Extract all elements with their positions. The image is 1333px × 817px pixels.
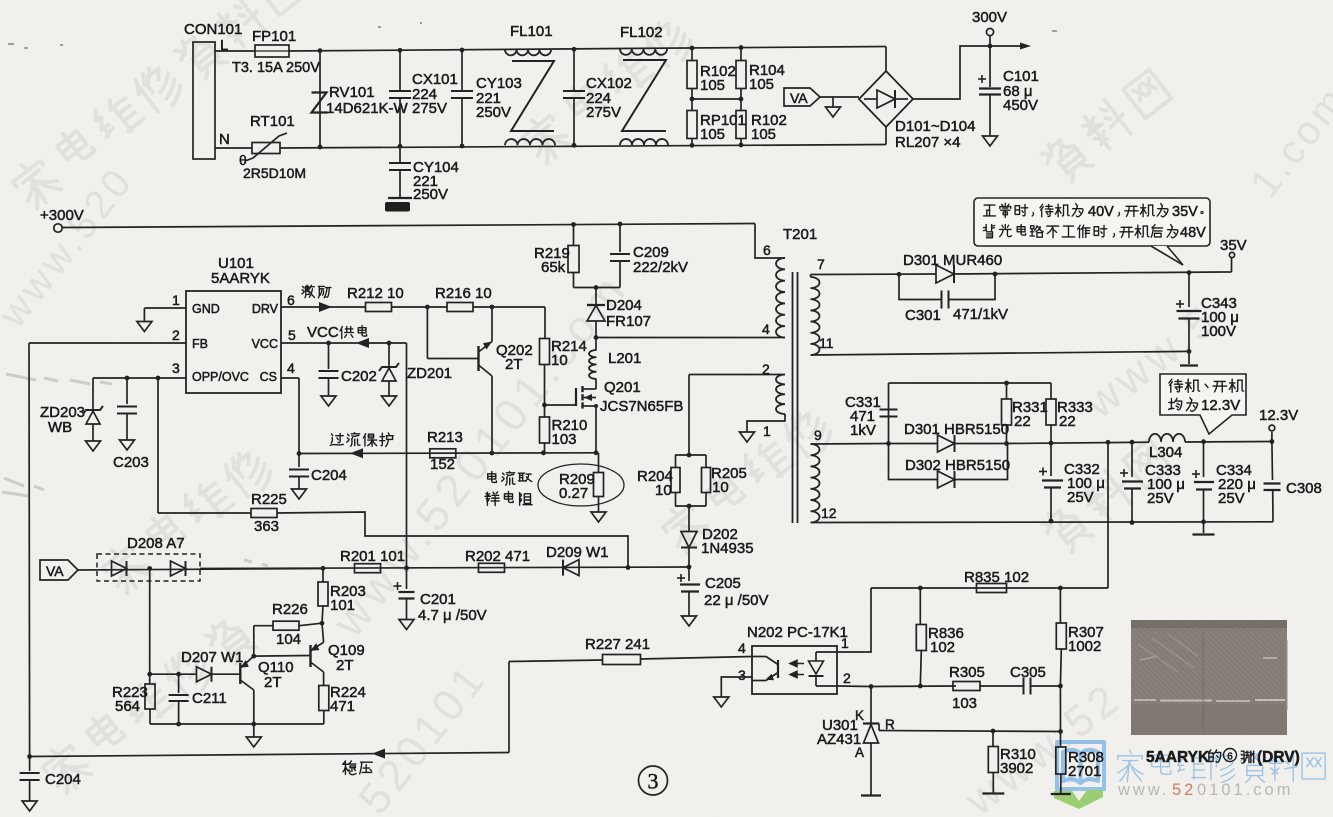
zener ZD201	[388, 343, 390, 366]
ground R308	[1051, 793, 1071, 795]
callout standby 12.3V	[1160, 374, 1246, 434]
resistor R331	[1002, 399, 1012, 425]
svg-text:564: 564	[115, 698, 140, 715]
svg-text:DRV: DRV	[252, 302, 279, 316]
svg-text:250V: 250V	[413, 186, 448, 203]
callout normal standby 40V	[974, 198, 1210, 246]
resistor R102 lower	[736, 111, 746, 139]
capacitor C203	[126, 378, 128, 404]
label jili drive	[302, 285, 315, 298]
svg-text:6: 6	[763, 242, 771, 258]
resistor R224	[319, 686, 329, 711]
svg-text:2T: 2T	[264, 674, 282, 691]
resistor R209 current sense	[538, 464, 624, 506]
svg-text:12: 12	[821, 505, 837, 521]
svg-text:105: 105	[751, 126, 776, 143]
svg-text:www.: www.	[1117, 781, 1169, 799]
ground C343 return	[1188, 351, 1190, 364]
resistor R203	[322, 568, 324, 582]
resistors R204 R205 parallel	[688, 375, 690, 456]
svg-text:9: 9	[814, 427, 822, 443]
svg-text:4: 4	[287, 360, 295, 376]
ground ZD201	[382, 396, 397, 406]
transistor Q109	[309, 645, 311, 667]
svg-text:1: 1	[172, 292, 180, 308]
resistor R213	[430, 449, 456, 458]
scan speckles	[8, 23, 1057, 48]
svg-text:3902: 3902	[1000, 760, 1033, 777]
svg-text:FB: FB	[192, 337, 208, 351]
svg-text:2T: 2T	[505, 356, 523, 373]
svg-text:40V: 40V	[1088, 204, 1114, 220]
svg-text:FR107: FR107	[606, 313, 651, 330]
IC U101 5AARYK	[186, 291, 281, 393]
inductor L304	[1149, 434, 1185, 442]
svg-text:Q201: Q201	[604, 379, 641, 396]
svg-text:0101.com: 0101.com	[1197, 781, 1293, 799]
wire VA row	[78, 569, 323, 571]
label current sampling resistor	[488, 472, 497, 483]
svg-text:C203: C203	[113, 454, 149, 471]
capacitor CY103	[461, 50, 463, 91]
resistor R219	[568, 246, 579, 273]
svg-text:R225: R225	[251, 491, 287, 508]
ground R209	[591, 512, 606, 522]
ground CY104	[388, 197, 412, 199]
svg-text:35V: 35V	[1220, 237, 1247, 254]
svg-text:1kV: 1kV	[850, 422, 876, 439]
svg-text:105: 105	[700, 126, 725, 143]
T201 primary winding pin6 pin4	[755, 224, 785, 259]
resistor R225	[251, 509, 277, 518]
wire mid junction	[692, 98, 741, 100]
wire DRV corner to R214	[544, 307, 546, 339]
thermistor RT101	[252, 143, 280, 154]
wire VA to bridge	[820, 96, 859, 98]
resistor R212	[366, 303, 392, 312]
diode D301 HBR5150	[889, 443, 938, 445]
ground pin1	[143, 308, 145, 322]
svg-text:GND: GND	[192, 302, 220, 316]
svg-text:22 μ /50V: 22 μ /50V	[704, 592, 769, 609]
diode D301 MUR460	[936, 265, 954, 283]
svg-text:222/2kV: 222/2kV	[633, 259, 688, 276]
wire R216 out	[473, 306, 545, 308]
svg-text:ZD201: ZD201	[407, 365, 452, 382]
capacitor C332	[1050, 443, 1052, 476]
svg-text:103: 103	[552, 431, 577, 448]
svg-text:12.3V: 12.3V	[1259, 407, 1298, 424]
svg-text:VCC: VCC	[307, 324, 339, 341]
wire pin9 row	[811, 443, 889, 446]
svg-text:3: 3	[738, 667, 746, 683]
svg-text:275V: 275V	[412, 100, 447, 117]
logo blue site name	[1118, 750, 1143, 782]
label circled 3 page number	[639, 766, 668, 795]
svg-text:OPP/OVC: OPP/OVC	[192, 370, 249, 384]
resistor R310	[992, 731, 994, 747]
wire 12V row	[1007, 442, 1150, 443]
TL431 U301 AZ431	[870, 687, 872, 724]
svg-text:FL101: FL101	[510, 23, 553, 40]
common-mode choke FL102	[620, 49, 667, 55]
svg-text:1: 1	[841, 635, 849, 651]
svg-text:R835 102: R835 102	[964, 569, 1029, 586]
fuse FP101	[255, 45, 289, 57]
wire TL431 ref row	[878, 724, 880, 731]
resistor R305	[953, 682, 980, 691]
diode D202 1N4935	[688, 506, 690, 531]
wire C305 out	[1031, 685, 1061, 687]
wire regulation row	[30, 753, 509, 757]
node 35V terminal	[1222, 271, 1232, 273]
T201 secondary winding pin7 pin11	[811, 277, 820, 355]
T201 secondary winding pin9 pin12	[811, 444, 820, 523]
resistor R216	[447, 303, 473, 312]
capacitor CX101	[399, 50, 401, 91]
svg-text:5AARYK: 5AARYK	[1146, 749, 1210, 766]
wire bridge bottom to N rail	[885, 127, 887, 145]
zener ZD203	[92, 378, 94, 409]
svg-text:D208 A7: D208 A7	[127, 535, 185, 552]
svg-text:4: 4	[738, 640, 746, 656]
svg-text:C211: C211	[192, 690, 227, 707]
svg-text:WB: WB	[48, 419, 72, 436]
svg-text:N: N	[219, 131, 230, 148]
wire regulation to R227	[508, 662, 510, 753]
svg-text:6: 6	[1227, 752, 1233, 763]
resistor R308	[1060, 732, 1062, 747]
node +300V terminal	[54, 224, 62, 232]
svg-text:103: 103	[952, 695, 977, 712]
transformer T201 core	[792, 272, 794, 523]
svg-text:2701: 2701	[1068, 763, 1101, 780]
resistor R201	[355, 564, 381, 573]
node 12.3V terminal	[1271, 432, 1273, 442]
svg-text:22: 22	[1014, 413, 1031, 430]
svg-text:1002: 1002	[1068, 638, 1101, 655]
svg-text:25V: 25V	[1218, 490, 1245, 507]
ground C203	[120, 440, 135, 450]
wire opto pin2 row	[837, 685, 871, 688]
svg-text:101: 101	[330, 597, 355, 614]
svg-text:JCS7N65FB: JCS7N65FB	[600, 398, 683, 415]
svg-text:12.3V: 12.3V	[1201, 397, 1240, 414]
svg-text:11: 11	[819, 335, 834, 351]
svg-text:471/1kV: 471/1kV	[953, 306, 1008, 323]
svg-text:100V: 100V	[1201, 323, 1236, 340]
svg-text:7: 7	[817, 256, 825, 272]
svg-text:363: 363	[254, 518, 279, 535]
diode D209 W1	[563, 560, 579, 576]
transistor Q201 JCS7N65FB	[575, 388, 577, 406]
resistor RP101	[687, 111, 697, 139]
svg-text:FL102: FL102	[620, 24, 663, 41]
connector CON101	[193, 42, 215, 159]
svg-text:275V: 275V	[586, 104, 621, 121]
capacitor C343	[1188, 273, 1190, 307]
svg-text:L304: L304	[1149, 444, 1182, 461]
wire opto pin3 ground	[721, 677, 752, 697]
label overcurrent protection	[330, 434, 343, 446]
resistor R210	[540, 417, 550, 443]
svg-text:R212 10: R212 10	[347, 285, 404, 302]
svg-text:65k: 65k	[541, 259, 566, 276]
label VA input	[40, 560, 78, 580]
svg-text:R213: R213	[427, 429, 463, 446]
wire D208 junction drop	[149, 569, 151, 675]
svg-text:D204: D204	[606, 297, 642, 314]
resistor R307	[1059, 588, 1061, 623]
wire 12V bottom rail	[811, 521, 1274, 524]
ground at bridge input	[832, 97, 834, 107]
svg-text:RV101: RV101	[329, 84, 375, 101]
resistor R227	[603, 655, 641, 665]
svg-text:22: 22	[1059, 413, 1076, 430]
capacitor CX102	[573, 49, 575, 91]
capacitor C301 bypass	[899, 274, 941, 299]
wire gate	[545, 404, 577, 406]
wire N rail	[280, 145, 886, 149]
svg-text:2T: 2T	[336, 657, 354, 674]
resistor R202	[479, 563, 505, 572]
svg-text:471: 471	[330, 698, 355, 715]
svg-text:D101~D104: D101~D104	[895, 118, 975, 135]
wire snubber bottom	[574, 287, 621, 289]
svg-text:5: 5	[288, 327, 296, 343]
resistor R214	[540, 339, 550, 365]
ground C204	[292, 489, 307, 499]
ground C202	[321, 396, 336, 406]
transistor Q202	[426, 307, 428, 359]
svg-text:5AARYK: 5AARYK	[211, 270, 270, 287]
svg-text:105: 105	[700, 77, 725, 94]
capacitor C201	[406, 568, 408, 589]
node 300V terminal	[988, 44, 993, 49]
bridge rectifier D101-D104	[859, 71, 913, 127]
svg-text:25V: 25V	[1067, 489, 1094, 506]
wire bridge top	[885, 47, 887, 72]
wire D207 to Q110 base	[212, 673, 241, 675]
svg-text:L201: L201	[608, 350, 641, 367]
svg-text:R216 10: R216 10	[435, 285, 492, 302]
svg-text:C204: C204	[311, 467, 347, 484]
wire row A	[200, 567, 689, 569]
wire N line	[215, 147, 252, 149]
svg-text:D301 MUR460: D301 MUR460	[903, 252, 1002, 269]
svg-text:2R5D10M: 2R5D10M	[243, 165, 306, 181]
svg-text:N202 PC-17K1: N202 PC-17K1	[747, 624, 848, 641]
wire D301 out	[954, 272, 1222, 274]
wire FB vertical	[28, 343, 31, 757]
svg-text:R202 471: R202 471	[465, 548, 530, 565]
svg-text:D209 W1: D209 W1	[546, 544, 609, 561]
svg-text:152: 152	[430, 456, 455, 473]
logo book icon	[1057, 742, 1104, 789]
capacitor C331	[888, 383, 890, 444]
svg-text:R226: R226	[272, 601, 308, 618]
resistor R835	[977, 584, 1007, 593]
svg-text:250V: 250V	[476, 104, 511, 121]
svg-text:25V: 25V	[1147, 490, 1174, 507]
diode pair D208 A7	[97, 554, 200, 581]
common-mode choke FL101	[505, 50, 551, 56]
svg-text:14D621K-W: 14D621K-W	[326, 100, 409, 117]
wire pin11 row	[811, 351, 1190, 355]
capacitor CY104	[399, 146, 401, 163]
capacitor C211	[178, 674, 180, 693]
svg-text:C308: C308	[1286, 480, 1322, 497]
svg-text:1N4935: 1N4935	[701, 540, 754, 557]
resistor R226	[254, 625, 273, 627]
svg-text:VCC: VCC	[252, 337, 278, 351]
resistor R225 row	[157, 378, 159, 513]
svg-text:300V: 300V	[972, 9, 1007, 26]
svg-text:10: 10	[712, 479, 729, 496]
svg-text:AZ431: AZ431	[817, 731, 861, 748]
wire R305 to C305	[980, 685, 1024, 687]
optocoupler N202 PC-17K1	[752, 646, 837, 694]
resistor R223	[149, 674, 151, 684]
svg-text:D301 HBR5150: D301 HBR5150	[904, 421, 1009, 438]
wire L rail	[289, 47, 886, 52]
label regulation	[343, 761, 356, 775]
capacitor C334	[1203, 442, 1205, 477]
wire VCC feed vertical	[406, 343, 408, 568]
ground R310	[982, 792, 1004, 794]
ground ZD203	[86, 441, 101, 451]
capacitor C305	[1023, 678, 1025, 695]
inductor L201	[595, 338, 597, 351]
svg-text:(DRV): (DRV)	[1257, 749, 1300, 766]
svg-text:10: 10	[551, 352, 568, 369]
resistor R102 top-left	[687, 61, 697, 89]
svg-text:C201: C201	[420, 591, 456, 608]
wire +300V rail	[62, 224, 755, 228]
wire R225 to row A	[277, 512, 628, 568]
svg-text:VA: VA	[790, 90, 808, 106]
svg-text:R227 241: R227 241	[585, 636, 650, 653]
svg-text:3: 3	[172, 360, 180, 376]
ground 12V rail	[1203, 522, 1205, 533]
svg-text:C301: C301	[905, 307, 941, 324]
resistor R104	[736, 61, 746, 89]
svg-text:3: 3	[648, 769, 659, 794]
svg-text:2: 2	[172, 327, 180, 343]
wire R835 row	[871, 587, 1108, 589]
svg-text:RL207 ×4: RL207 ×4	[895, 134, 960, 151]
svg-text:VA: VA	[46, 563, 64, 579]
svg-text:52: 52	[1172, 781, 1196, 799]
svg-text:RT101: RT101	[250, 113, 295, 130]
ground C205	[682, 616, 697, 626]
diode D302 HBR5150	[889, 444, 938, 480]
svg-text:C205: C205	[705, 575, 741, 592]
transistor Q110	[150, 673, 196, 675]
ground bracket	[253, 724, 255, 737]
wire emitter ground bracket	[150, 723, 324, 725]
wire Q110 emitter node	[251, 654, 256, 659]
svg-text:CS: CS	[260, 370, 277, 384]
svg-text:D207 W1: D207 W1	[181, 649, 244, 666]
wire R227 to opto	[641, 657, 753, 660]
wire R210 down	[544, 443, 546, 453]
wire R212 to R216	[392, 306, 448, 308]
varistor RV101	[319, 50, 321, 147]
scan artifact black blob	[385, 202, 410, 212]
logo green ribbon	[1054, 790, 1103, 809]
wire snubber top bracket	[889, 382, 1052, 384]
svg-text:C305: C305	[1010, 664, 1046, 681]
svg-text:CON101: CON101	[184, 21, 242, 38]
svg-text:35V: 35V	[1172, 204, 1198, 220]
svg-text:D302 HBR5150: D302 HBR5150	[905, 457, 1010, 474]
capacitor C101	[989, 46, 991, 87]
diode D204 FR107	[595, 288, 597, 306]
capacitor C308	[1271, 442, 1274, 481]
svg-text:FP101: FP101	[252, 28, 296, 45]
wire T201 pin4 row	[596, 337, 785, 339]
wire R203 down	[322, 606, 323, 623]
svg-text:4.7 μ /50V: 4.7 μ /50V	[418, 607, 487, 624]
svg-text:6: 6	[287, 292, 295, 308]
ground AZ431	[861, 794, 881, 796]
svg-text:2: 2	[843, 670, 851, 686]
svg-text:48V: 48V	[1180, 225, 1206, 241]
wire R214 to junction	[544, 365, 546, 418]
label VA output	[784, 88, 820, 106]
svg-text:1: 1	[763, 423, 771, 439]
resistor R333	[1046, 399, 1056, 425]
wire 12V feed down	[1107, 442, 1109, 588]
svg-text:R201 101: R201 101	[340, 548, 405, 565]
svg-text:10: 10	[655, 482, 672, 499]
wire pin7 row	[810, 275, 812, 278]
capacitor C204 bottom	[29, 757, 31, 772]
wire L line	[215, 50, 255, 52]
capacitor C205	[688, 567, 690, 581]
svg-text:R305: R305	[949, 664, 985, 681]
ground C204 bottom	[22, 801, 37, 811]
ground C101	[983, 136, 998, 146]
svg-text:T201: T201	[783, 226, 817, 243]
svg-text:104: 104	[276, 631, 301, 648]
wire bridge output	[913, 46, 1022, 99]
resistor R836	[919, 588, 921, 625]
wire R307 bottom to R row	[1059, 686, 1061, 732]
ground aux winding	[740, 432, 755, 442]
svg-text:+300V: +300V	[40, 207, 84, 224]
ground C201	[399, 620, 414, 630]
svg-text:C204: C204	[45, 771, 81, 788]
svg-text:C202: C202	[341, 368, 377, 385]
svg-text:102: 102	[930, 639, 955, 656]
svg-text:0.27: 0.27	[559, 485, 588, 502]
capacitor C209	[619, 224, 621, 252]
svg-text:T3. 15A 250V: T3. 15A 250V	[232, 60, 320, 76]
capacitor C204 at CS	[298, 454, 300, 468]
svg-text:4: 4	[762, 321, 770, 337]
svg-text:450V: 450V	[1003, 97, 1038, 114]
diode D207 W1	[197, 667, 212, 682]
capacitor C202	[328, 343, 330, 369]
svg-text:105: 105	[749, 76, 774, 93]
wire CS protection row	[299, 452, 596, 455]
wire opto pin1 to R835 row	[837, 588, 871, 652]
capacitor C333	[1131, 442, 1133, 477]
